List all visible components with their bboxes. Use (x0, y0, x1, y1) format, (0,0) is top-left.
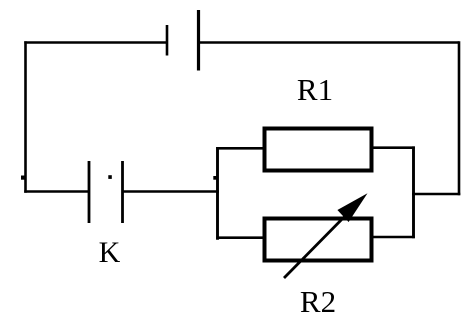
node tick on left wire (21, 176, 25, 180)
switch K pivot dot (108, 175, 112, 179)
rheostat R2 arrow shaft (284, 209, 352, 278)
wire: top-right horizontal from battery positive plate to right corner (199, 41, 460, 44)
wire: left vertical side (24, 41, 27, 193)
left bus bar of parallel network (216, 147, 219, 240)
wire: R2 to right bus (371, 236, 415, 239)
wire: switch to parallel-network left bus (123, 190, 219, 193)
resistor R1 body (265, 129, 372, 171)
battery negative plate (short) (166, 25, 169, 56)
wire: left bus to R2 (216, 236, 264, 239)
svg-text:R1: R1 (297, 72, 333, 107)
switch K left bar (88, 161, 91, 223)
svg-text:R2: R2 (300, 284, 336, 319)
node tick on left bus (213, 176, 216, 180)
wire: R1 to right bus (371, 146, 415, 149)
switch K right bar (121, 161, 124, 223)
svg-text:K: K (99, 236, 121, 269)
rheostat R2 body (265, 219, 372, 261)
rheostat R2 arrowhead (337, 193, 367, 222)
battery positive plate (long) (197, 10, 200, 71)
wire: bottom-left horizontal to switch (24, 190, 89, 193)
right bus bar of parallel network (412, 146, 415, 238)
wire: top-left horizontal from left corner to battery negative plate (24, 41, 167, 44)
wire: left bus to R1 (216, 147, 264, 150)
wire: right vertical side (458, 41, 461, 195)
wire: right bus to outer right wire (412, 193, 460, 196)
